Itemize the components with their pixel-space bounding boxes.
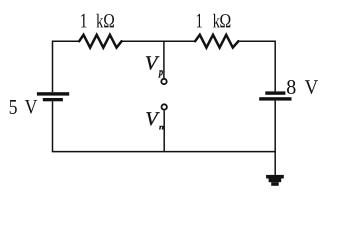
node label Vn bbox=[146, 112, 163, 129]
battery V2 (8 V source), long plate on bottom bbox=[259, 91, 291, 100]
battery V1 (5 V source), long plate on top bbox=[37, 92, 69, 101]
R2 value label "1 kΩ" bbox=[197, 14, 230, 28]
resistor R2 (right 1 kOhm) zigzag bbox=[195, 35, 238, 48]
wire: bottom rail from left branch to right branch bbox=[52, 151, 275, 153]
wire: left vertical upper (corner at top-left, down to 5V battery top plate) bbox=[52, 41, 54, 93]
terminal Vn (open circle) bbox=[162, 104, 167, 109]
node label Vp bbox=[146, 56, 163, 77]
V2 value label "8 V" bbox=[287, 80, 318, 94]
wire: right vertical lower (8V battery bottom plate down through bottom-rail junction to ground) bbox=[274, 101, 276, 175]
wire: left vertical lower (5V battery bottom plate down to bottom rail) bbox=[52, 101, 54, 151]
wire: top-left horizontal from left branch corner to R1 bbox=[53, 40, 80, 42]
V1 value label "5 V" bbox=[10, 100, 37, 114]
resistor R1 (left 1 kOhm) zigzag bbox=[79, 35, 121, 48]
wire: top-right horizontal from R2 to right branch corner bbox=[238, 40, 275, 42]
wire: right vertical upper (corner down to 8V battery top plate) bbox=[274, 41, 276, 92]
R1 value label "1 kΩ" bbox=[81, 14, 114, 28]
wire: top middle horizontal between R1 and R2 bbox=[122, 40, 196, 42]
wire: Vn stub from Vn terminal down to bottom rail bbox=[163, 111, 165, 152]
terminal Vp (open circle) bbox=[161, 79, 166, 84]
wire: Vp stub from top rail down to Vp terminal bbox=[163, 41, 165, 78]
ground (stepped bar ground symbol at bottom-right) bbox=[266, 175, 284, 186]
